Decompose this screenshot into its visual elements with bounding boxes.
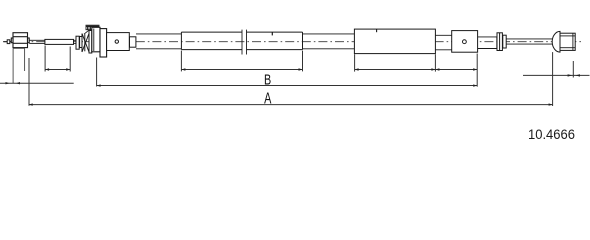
ball end dome xyxy=(552,31,560,52)
adjuster body xyxy=(92,27,100,52)
wire outer housing tube 2 xyxy=(303,34,355,49)
rod right xyxy=(478,37,497,49)
guide fitting with hole xyxy=(452,31,478,53)
left mounting bracket xyxy=(13,48,25,83)
dimension A xyxy=(29,58,553,106)
left end barrel fitting xyxy=(11,33,29,48)
sheath section mid xyxy=(181,32,302,50)
adjuster plate xyxy=(89,31,92,54)
wire left cable end xyxy=(4,41,14,43)
wire rod to collar xyxy=(74,40,77,43)
dimension mid sheath xyxy=(181,51,302,72)
sheath section right xyxy=(354,29,435,53)
adjusting nut xyxy=(497,33,502,51)
dimension B xyxy=(97,58,478,87)
svg-text:B: B xyxy=(264,71,271,88)
serrated rack on top xyxy=(84,25,99,34)
rod threaded wide section xyxy=(45,39,74,44)
dimension right nipple xyxy=(523,52,590,106)
centerline xyxy=(3,41,583,43)
ball end sleeve xyxy=(560,33,575,50)
svg-text:A: A xyxy=(264,89,272,107)
washer collar xyxy=(503,35,506,48)
guide cylinder xyxy=(107,33,136,51)
rod thin section xyxy=(29,40,45,43)
tick on mid sheath xyxy=(271,32,273,35)
dimension left nipple xyxy=(0,82,74,84)
dimension guide fitting xyxy=(435,54,477,87)
tick on right sheath xyxy=(376,29,378,32)
threaded rod xyxy=(506,39,552,44)
left cable nipple xyxy=(7,40,10,44)
wire outer housing tube 3 xyxy=(435,35,451,50)
spring clip spider xyxy=(80,34,89,53)
abutment block xyxy=(100,29,107,57)
dimension right sheath xyxy=(355,54,436,71)
wire outer housing tube 1 xyxy=(136,34,181,49)
dimension rod length xyxy=(45,46,70,72)
break mark xyxy=(242,30,247,55)
part number 10.4666 xyxy=(528,127,575,142)
stop collar xyxy=(76,36,79,49)
